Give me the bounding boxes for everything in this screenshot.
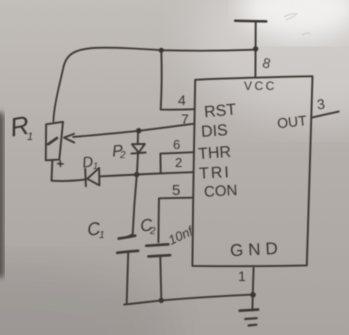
- node DIS junction: [136, 128, 141, 133]
- wire P2 bottom lead: [137, 154, 138, 175]
- R1 pen slip tick: [58, 161, 63, 166]
- wire VCC vertical to pin 8: [254, 22, 256, 78]
- svg-text:THR: THR: [198, 144, 232, 163]
- diode P2 cathode bar: [131, 153, 145, 154]
- node pin1 junction: [250, 292, 256, 298]
- svg-text:1: 1: [99, 230, 105, 241]
- svg-text:GND: GND: [230, 239, 284, 261]
- resistor R1 (potentiometer body): [46, 122, 63, 161]
- VCC power symbol: [235, 20, 266, 23]
- svg-text:5: 5: [172, 182, 180, 199]
- svg-text:DIS: DIS: [201, 122, 229, 141]
- svg-text:RST: RST: [203, 101, 237, 121]
- wire D1 to TRI node: [99, 172, 192, 176]
- svg-text:1: 1: [93, 161, 98, 171]
- svg-text:TRI: TRI: [199, 164, 232, 183]
- svg-text:VCC: VCC: [244, 79, 277, 93]
- svg-text:6: 6: [173, 137, 180, 152]
- diode D1 triangle: [87, 168, 99, 185]
- wire THR pin 6 branch: [160, 152, 193, 173]
- R1 wiper arrowhead: [64, 134, 74, 143]
- wire RST pin 4 branch: [161, 51, 195, 110]
- svg-text:4: 4: [178, 92, 186, 108]
- node C2 bottom junction: [159, 298, 164, 303]
- wire C1 top lead: [128, 175, 136, 236]
- svg-text:CON: CON: [204, 182, 238, 201]
- diode D1 cathode bar: [84, 169, 87, 186]
- wire OUT pin 3 stub: [312, 112, 339, 118]
- capacitor C1 plates: [119, 236, 136, 239]
- wire C2 bottom lead: [160, 257, 161, 300]
- wire top rail: [53, 48, 255, 122]
- wire bottom ground rail: [124, 295, 253, 305]
- faint pencil smudges: [284, 14, 311, 35]
- wire P2 top lead: [137, 131, 139, 144]
- svg-text:2: 2: [149, 226, 156, 237]
- svg-text:7: 7: [181, 111, 189, 127]
- R1 wiper contact tick: [48, 138, 57, 144]
- node VCC junction: [253, 46, 258, 51]
- wire GND pin 1 lead: [252, 268, 253, 310]
- wire R1 to D1: [52, 180, 85, 181]
- node top rail junction: [159, 48, 164, 53]
- svg-text:1: 1: [238, 268, 246, 284]
- wire R1 bottom lead: [51, 160, 54, 180]
- svg-text:1: 1: [27, 131, 33, 143]
- wire DIS pin 7 to R1 wiper: [73, 124, 194, 137]
- diode P2 triangle: [132, 144, 145, 153]
- ground symbol: [240, 310, 259, 311]
- capacitor C2 plates: [146, 244, 168, 246]
- svg-text:2: 2: [119, 150, 126, 161]
- svg-text:OUT: OUT: [276, 112, 308, 131]
- wire CON pin 5 branch: [158, 198, 191, 243]
- wire C1 bottom lead: [127, 253, 129, 303]
- node TRI junction: [134, 172, 139, 177]
- IC U1 555 body: [192, 76, 312, 266]
- svg-text:2: 2: [175, 155, 182, 170]
